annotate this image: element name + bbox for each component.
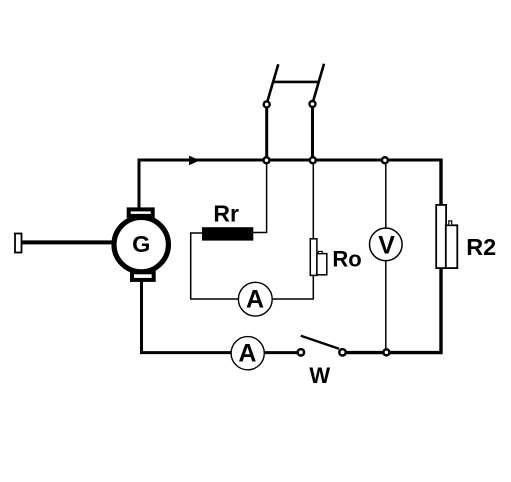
wire: switch S right pole vertical xyxy=(311,107,314,160)
wire: generator top lead up and top bus to right corner xyxy=(139,160,441,209)
wire: thin lead from node B down to Rr right end xyxy=(253,160,267,233)
switch W left contact xyxy=(298,349,304,355)
switch S left blade xyxy=(268,64,279,100)
node E junction xyxy=(383,349,389,355)
rheostat R2 body xyxy=(436,205,446,268)
svg-text:Rr: Rr xyxy=(213,201,239,227)
rheostat Ro slider xyxy=(317,254,327,275)
svg-text:A: A xyxy=(246,286,264,314)
switch S right contact xyxy=(310,101,316,107)
svg-text:Ro: Ro xyxy=(332,246,361,271)
wire: right vertical from top bus down to R2 top xyxy=(439,159,442,207)
switch W blade xyxy=(301,336,339,349)
wire: thin lead from A1 right to Ro bottom xyxy=(272,275,313,299)
switch W right contact xyxy=(339,349,345,355)
wire: thin lead from Ro top up to node C xyxy=(312,160,314,239)
wire: thin lead from node D down to voltmeter V top xyxy=(385,160,387,228)
resistor Rr (filled body) xyxy=(202,227,253,240)
generator G bottom brush xyxy=(132,272,154,280)
svg-text:A: A xyxy=(238,339,256,367)
svg-text:R2: R2 xyxy=(466,234,496,260)
wire: switch S left pole vertical xyxy=(265,107,268,160)
generator G crank handle xyxy=(15,234,22,253)
svg-text:W: W xyxy=(309,363,330,388)
node B junction xyxy=(264,157,270,163)
node C junction xyxy=(310,157,316,163)
voltmeter V xyxy=(370,228,403,261)
switch S link bar xyxy=(272,81,318,84)
arrow (current direction) on top bus xyxy=(189,156,200,166)
wire: R2 bottom down to bottom-right corner and bottom bus to W right contact xyxy=(346,267,441,353)
rheostat Ro slider tab xyxy=(318,251,322,253)
rheostat Ro body xyxy=(310,239,317,276)
generator G shaft xyxy=(22,240,115,244)
generator G body (circle) xyxy=(114,217,168,271)
svg-text:V: V xyxy=(378,231,395,259)
ammeter A2 xyxy=(231,337,264,370)
rheostat R2 slider xyxy=(446,225,458,268)
wire: thin lead from Rr left end down and right to ammeter A1 xyxy=(191,233,239,299)
wire: bottom bus from A2 left to bottom-left corner and up to generator bottom xyxy=(142,278,232,353)
switch S left contact xyxy=(264,101,270,107)
generator G top brush xyxy=(129,209,153,216)
ammeter A1 xyxy=(238,282,272,316)
switch S right blade xyxy=(313,64,324,100)
svg-text:G: G xyxy=(132,231,150,257)
node D junction xyxy=(382,157,388,163)
rheostat R2 slider tab xyxy=(449,221,452,225)
wire: thin lead from voltmeter V bottom down to node E xyxy=(385,261,387,352)
wire: bottom bus between W left contact and ammeter A2 xyxy=(265,351,298,354)
